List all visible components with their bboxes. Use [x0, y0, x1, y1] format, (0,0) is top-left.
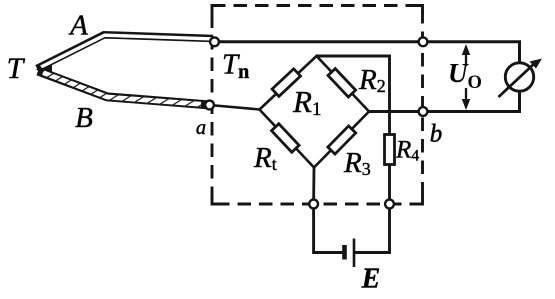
node b (terminal circle): [419, 107, 428, 116]
svg-text:UO: UO: [448, 58, 482, 93]
thermocouple wire A (double-line band): [37, 35, 213, 69]
wire: bridge right node to b and meter: [369, 91, 520, 112]
reference-junction box Tn (dashed enclosure): [212, 6, 423, 205]
battery E: [345, 239, 355, 268]
wire: a to bridge left node: [210, 105, 260, 110]
resistor Rt: [272, 124, 300, 152]
wire: top conductor through box to meter: [215, 42, 520, 63]
resistor R2: [328, 69, 356, 97]
node a (terminal circle): [205, 101, 214, 110]
voltage arrows U0: [462, 44, 470, 110]
wire: battery loop: [314, 204, 390, 253]
resistor R1: [272, 69, 300, 97]
terminal circle bottom-right: [385, 200, 394, 209]
resistor R3: [328, 126, 356, 154]
terminal circle bottom-left: [309, 200, 318, 209]
svg-text:b: b: [430, 121, 443, 148]
meter (galvanometer): [499, 59, 543, 98]
svg-text:A: A: [68, 10, 88, 42]
wire: bridge bottom node to battery terminal: [312, 168, 315, 205]
svg-text:Tn: Tn: [222, 49, 249, 84]
svg-text:T: T: [7, 52, 26, 85]
terminal circle top-right: [419, 37, 428, 46]
terminal circle top-left (wire A entry): [210, 37, 219, 46]
svg-text:Rt: Rt: [253, 142, 277, 174]
svg-text:a: a: [196, 117, 206, 139]
thermocouple junction tip (solid): [36, 60, 52, 79]
svg-text:R4: R4: [395, 137, 419, 165]
svg-text:R2: R2: [358, 64, 386, 96]
wire: bridge top node to R4 branch: [317, 56, 390, 204]
svg-text:R1: R1: [292, 84, 321, 120]
thermocouple wire B (hatched band): [38, 71, 208, 105]
svg-text:R3: R3: [343, 147, 371, 179]
resistor R4: [385, 135, 395, 165]
wire: bridge diamond sides: [260, 56, 370, 168]
svg-text:E: E: [361, 264, 381, 295]
svg-text:B: B: [75, 102, 93, 134]
